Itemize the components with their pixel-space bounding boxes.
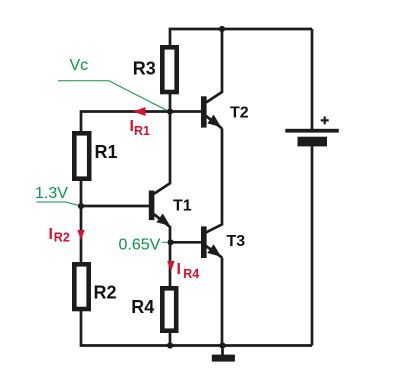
transistor T1: [149, 112, 170, 243]
wire 0.65V node to T3 base: [170, 241, 201, 244]
battery B1: [285, 117, 339, 147]
resistor R3: [162, 47, 176, 92]
resistor R1: [74, 133, 89, 178]
wire T3 emitter to ground rail: [221, 258, 224, 346]
Vc pointer line: [58, 81, 167, 111]
wire battery top: [311, 29, 314, 129]
wire R1 bottom to T1 base: [81, 181, 149, 206]
wire bottom rail: [81, 311, 312, 346]
svg-text:1.3V: 1.3V: [35, 185, 68, 202]
svg-text:IR2: IR2: [49, 226, 70, 245]
wire R3 bottom to Vc node: [169, 94, 172, 112]
svg-text:R3: R3: [133, 59, 156, 79]
svg-text:T1: T1: [173, 198, 192, 215]
0.65V pointer line: [162, 241, 167, 243]
current arrow IR2: [77, 230, 84, 240]
ground: [212, 346, 235, 362]
1.3V pointer line: [37, 202, 79, 206]
wire battery bottom: [311, 146, 314, 346]
svg-text:IR4: IR4: [177, 261, 200, 281]
node R4 bottom junction: [167, 342, 173, 348]
node Vc junction: [167, 108, 173, 114]
resistor R2: [74, 264, 88, 309]
svg-text:T3: T3: [227, 233, 246, 250]
svg-text:T2: T2: [230, 105, 249, 122]
wire node to R2 top: [80, 206, 83, 262]
current arrow IR4: [167, 261, 174, 272]
current arrow IR1: [133, 107, 146, 116]
wire Vc node to R1 and T2 base: [81, 112, 201, 132]
svg-text:IR1: IR1: [130, 118, 151, 138]
node 0.65V junction: [167, 239, 173, 245]
svg-text:Vc: Vc: [70, 57, 89, 74]
svg-text:R4: R4: [131, 297, 154, 317]
transistor T3: [201, 128, 222, 258]
wire R4 bottom to bottom rail: [169, 333, 172, 346]
svg-text:R1: R1: [95, 142, 118, 162]
resistor R4: [162, 288, 176, 330]
node 1.3V junction: [78, 203, 84, 209]
node top rail junction: [219, 26, 225, 32]
svg-text:0.65V: 0.65V: [119, 237, 161, 254]
wire top rail: [170, 29, 312, 46]
transistor T2: [201, 29, 222, 128]
wire node to R4 top: [169, 242, 172, 286]
svg-text:R2: R2: [94, 283, 117, 303]
node ground junction: [219, 342, 225, 348]
